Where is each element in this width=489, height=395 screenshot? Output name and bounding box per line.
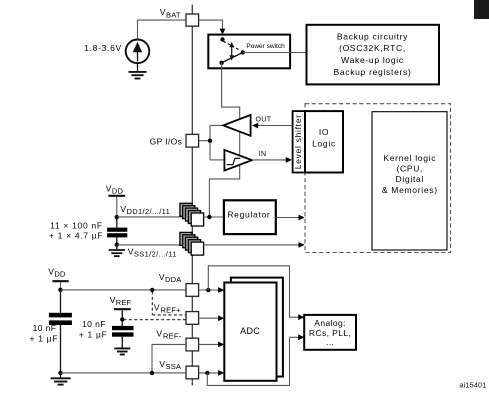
pin VBAT — [186, 14, 199, 26]
pin VREF- — [186, 338, 199, 351]
kernel logic box — [372, 112, 447, 250]
wire switched supply rail to regulator — [209, 63, 239, 217]
pin column wire — [191, 5, 193, 386]
svg-text:DD: DD — [54, 270, 66, 279]
wire VBAT to power switch — [199, 20, 226, 34]
wire VBAT to source — [138, 19, 187, 21]
label 11 x 100 nF + 1 x 4.7 uF — [49, 221, 103, 241]
svg-text:V: V — [120, 204, 126, 214]
label 10 nF + 1 uF (vref) — [79, 319, 108, 339]
wire VREF- to ADC — [199, 342, 225, 348]
rail VDD (middle) — [106, 183, 125, 219]
svg-text:(OSC32K,RTC,: (OSC32K,RTC, — [339, 43, 406, 53]
pin VREF+ — [186, 312, 199, 325]
svg-text:10 nF: 10 nF — [33, 323, 57, 333]
svg-text:Kernel logic: Kernel logic — [383, 153, 436, 163]
svg-text:IO: IO — [319, 127, 329, 137]
dashed wire VREF+ to VDD — [124, 292, 187, 320]
page corner tab — [474, 0, 489, 19]
svg-text:Level shifter: Level shifter — [293, 114, 303, 169]
svg-text:V: V — [106, 183, 112, 193]
svg-text:Wake-up logic: Wake-up logic — [341, 55, 404, 65]
label 1.8-3.6V — [84, 43, 122, 53]
input buffer U2 — [224, 150, 252, 171]
figure id ai15401 — [459, 383, 486, 390]
svg-text:Power switch: Power switch — [246, 43, 285, 50]
svg-text:V: V — [110, 295, 116, 305]
label VSS1/2/.../11 — [128, 246, 177, 258]
wire VDDA to ADC — [199, 287, 225, 293]
label VDD1/2/.../11 — [120, 204, 170, 216]
svg-text:V: V — [159, 272, 165, 282]
pin stack VDD1..11 — [180, 203, 204, 226]
battery source V1 1.8-3.6V — [126, 40, 150, 64]
ground (source) — [129, 63, 147, 78]
wire IN with arrow — [252, 157, 292, 163]
capacitor C1 11x100nF — [107, 217, 127, 247]
label VDDA — [159, 272, 182, 284]
svg-text:V: V — [156, 329, 162, 339]
svg-text:V: V — [160, 7, 166, 17]
svg-text:DDA: DDA — [165, 275, 181, 284]
output buffer U1 — [223, 115, 250, 136]
wire VSSA to ADC — [199, 370, 225, 376]
wire VDDA to analog block (around ADC) — [208, 266, 304, 320]
ground (VSS mid) — [109, 245, 125, 256]
wire VSS pins to kernel — [203, 242, 305, 248]
rail VDD (bottom left) — [48, 266, 68, 292]
ADC back box — [231, 278, 283, 377]
ground rail wire to VSSA — [61, 371, 187, 375]
svg-text:Backup circuitry: Backup circuitry — [337, 31, 408, 41]
svg-text:V: V — [48, 266, 54, 276]
wire GP I/O junction — [199, 125, 225, 159]
switch contacts — [219, 37, 245, 65]
svg-text:BAT: BAT — [166, 10, 181, 19]
capacitor C3 10nF+1uF — [49, 290, 72, 375]
svg-text:SSA: SSA — [166, 362, 182, 371]
svg-text:+ 1 µF: + 1 µF — [79, 329, 108, 339]
svg-text:...: ... — [326, 337, 334, 347]
svg-text:V: V — [154, 303, 160, 313]
wire regulator to kernel — [276, 215, 305, 221]
svg-text:REF-: REF- — [163, 332, 182, 341]
label Power switch — [246, 43, 285, 50]
dashed kernel supply domain — [305, 104, 451, 253]
analog block box — [304, 315, 356, 350]
ground (vref) — [114, 348, 130, 354]
svg-text:+ 1 µF: + 1 µF — [29, 334, 58, 344]
wire VREF+ to ADC — [199, 315, 225, 321]
svg-text:REF+: REF+ — [161, 306, 182, 315]
wire OUT with arrow — [252, 123, 293, 129]
pin VDDA — [186, 284, 199, 297]
svg-text:& Memories): & Memories) — [382, 185, 438, 195]
label VSSA — [159, 359, 181, 371]
svg-text:+ 1 × 4.7 µF: + 1 × 4.7 µF — [49, 231, 103, 241]
label VBAT — [160, 7, 181, 19]
wire VDD to pin stack — [117, 216, 186, 218]
svg-text:ai15401: ai15401 — [459, 383, 486, 390]
level shifter box — [293, 111, 305, 172]
capacitor C4 10nF+1uF — [112, 319, 134, 348]
ground (bottom left) — [51, 373, 71, 385]
label IN — [259, 151, 267, 158]
svg-text:DD1/2/.../11: DD1/2/.../11 — [127, 207, 171, 216]
wire VREF- to ground rail — [152, 344, 186, 373]
svg-text:OUT: OUT — [256, 116, 272, 123]
wire source drop — [137, 20, 139, 40]
svg-text:1.8-3.6V: 1.8-3.6V — [84, 43, 122, 53]
svg-text:Analog:: Analog: — [314, 318, 346, 328]
svg-text:DD: DD — [112, 187, 124, 196]
pin VSSA — [186, 366, 199, 379]
svg-text:11 × 100 nF: 11 × 100 nF — [50, 221, 103, 231]
label 10 nF + 1 uF (left) — [29, 323, 58, 344]
svg-text:Backup registers): Backup registers) — [333, 67, 411, 77]
power switch box — [208, 35, 290, 69]
label GP I/Os — [150, 137, 183, 147]
wire stack to regulator — [203, 215, 224, 219]
label OUT — [256, 116, 272, 123]
wire VSSA to analog block (around ADC) — [207, 334, 304, 385]
regulator box — [224, 200, 276, 234]
svg-text:V: V — [128, 246, 134, 256]
pin GP I/Os — [186, 134, 199, 147]
label VREF- — [156, 329, 181, 341]
svg-text:IN: IN — [259, 151, 267, 158]
svg-text:REF: REF — [116, 298, 132, 307]
IO logic box — [305, 111, 343, 172]
svg-text:SS1/2/.../11: SS1/2/.../11 — [134, 250, 177, 259]
svg-text:Digital: Digital — [396, 174, 425, 184]
rail VREF — [110, 295, 132, 322]
ADC front box — [224, 283, 276, 381]
svg-text:Logic: Logic — [312, 138, 336, 148]
svg-text:GP I/Os: GP I/Os — [150, 137, 183, 147]
svg-text:ADC: ADC — [240, 326, 260, 336]
wire VSS to pin stack — [117, 244, 186, 246]
backup circuitry box — [307, 25, 440, 85]
svg-text:10 nF: 10 nF — [82, 319, 106, 329]
svg-text:Regulator: Regulator — [227, 209, 270, 219]
wire VDD to VDDA pin — [61, 288, 187, 292]
svg-text:(CPU,: (CPU, — [396, 164, 423, 174]
svg-text:V: V — [159, 359, 165, 369]
pin stack VSS1..11 — [180, 232, 204, 255]
label VREF+ — [154, 303, 181, 315]
wire power switch to backup box — [243, 52, 307, 54]
